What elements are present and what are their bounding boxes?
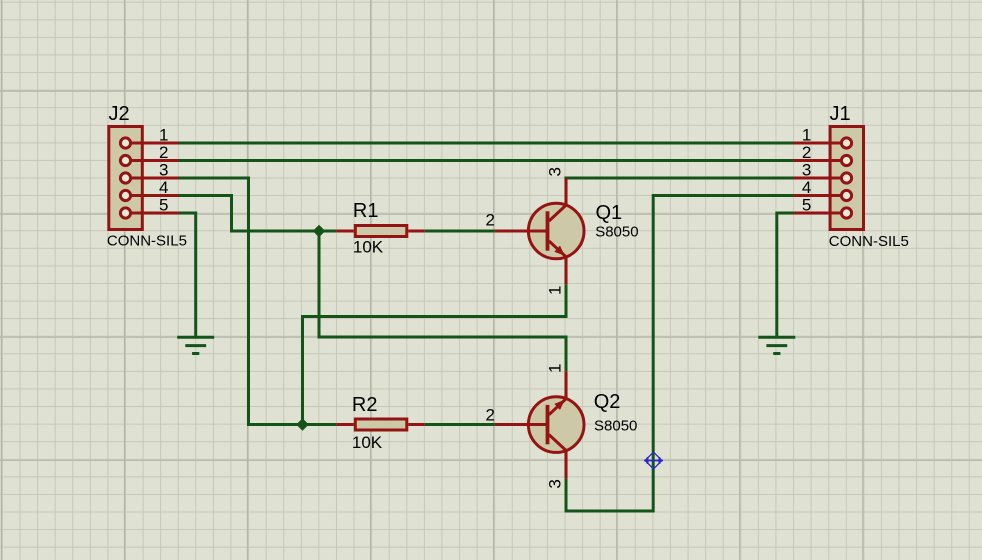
svg-text:Q1: Q1 xyxy=(596,202,623,224)
svg-text:2: 2 xyxy=(486,211,495,230)
resistor R1 xyxy=(336,226,424,237)
svg-text:4: 4 xyxy=(159,178,168,197)
wire R2 to Q2 base xyxy=(425,423,495,426)
svg-text:10K: 10K xyxy=(352,433,383,452)
svg-text:S8050: S8050 xyxy=(594,418,637,435)
svg-text:2: 2 xyxy=(486,405,495,424)
wire J2.3 to R2 left (via junction) xyxy=(179,178,337,425)
wire R1 junction to Q2 collector xyxy=(319,231,566,371)
svg-text:1: 1 xyxy=(546,286,565,295)
svg-text:Q2: Q2 xyxy=(594,391,621,413)
svg-text:10K: 10K xyxy=(353,237,384,256)
connector J1 xyxy=(794,127,864,230)
svg-text:3: 3 xyxy=(802,161,811,180)
connector J2 xyxy=(109,127,179,230)
svg-text:CONN-SIL5: CONN-SIL5 xyxy=(107,233,187,250)
wire J2.5 to left ground xyxy=(179,213,196,337)
svg-text:4: 4 xyxy=(802,178,811,197)
wire J2.2 to J1.2 xyxy=(179,159,794,162)
svg-text:1: 1 xyxy=(546,364,565,373)
svg-text:2: 2 xyxy=(802,143,811,162)
svg-text:J1: J1 xyxy=(830,103,851,125)
wire J2.1 to J1.1 xyxy=(179,142,794,145)
svg-text:1: 1 xyxy=(802,126,811,145)
svg-text:1: 1 xyxy=(159,126,168,145)
svg-text:J2: J2 xyxy=(109,103,130,125)
resistor R2 xyxy=(336,419,424,430)
svg-text:R1: R1 xyxy=(353,200,379,222)
svg-text:R2: R2 xyxy=(352,394,378,416)
junction node R2 / Q1 emitter xyxy=(296,418,309,431)
svg-text:5: 5 xyxy=(159,196,168,215)
transistor Q1 xyxy=(495,178,584,284)
svg-text:3: 3 xyxy=(159,161,168,180)
svg-text:5: 5 xyxy=(802,196,811,215)
origin marker (blue diamond) xyxy=(644,452,663,469)
svg-text:3: 3 xyxy=(546,167,565,176)
ground (right) xyxy=(758,337,795,353)
wire Q1 emitter to R2 junction xyxy=(303,284,567,424)
junction node R1 / Q2 collector xyxy=(313,225,326,238)
wire J1.5 to right ground xyxy=(777,213,794,337)
wire J2.4 to R1 junction xyxy=(179,196,337,232)
wire Q2 emitter to J1.4 xyxy=(566,196,794,512)
ground (left) xyxy=(177,337,214,353)
svg-text:S8050: S8050 xyxy=(595,223,638,240)
svg-text:CONN-SIL5: CONN-SIL5 xyxy=(829,233,909,250)
wire Q1 collector to J1.3 xyxy=(564,177,793,180)
transistor Q2 xyxy=(495,371,584,479)
wire R1 to Q1 base xyxy=(425,230,495,233)
svg-text:2: 2 xyxy=(159,143,168,162)
svg-text:3: 3 xyxy=(546,479,565,488)
